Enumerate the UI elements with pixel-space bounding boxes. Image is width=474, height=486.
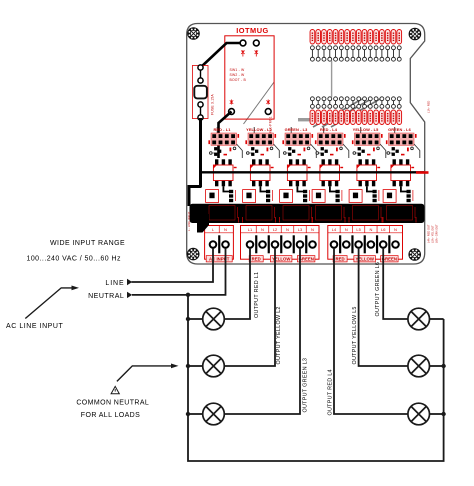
lamp LAMP4 <box>408 308 430 330</box>
wire lamp1 left <box>188 318 203 320</box>
svg-text:OUTPUT YELLOW L5: OUTPUT YELLOW L5 <box>352 306 358 364</box>
svg-text:N: N <box>224 227 227 232</box>
svg-text:YELLOW - L5: YELLOW - L5 <box>353 127 379 132</box>
svg-text:GREEN - L3: GREEN - L3 <box>285 127 309 132</box>
mounting hole top-left <box>187 27 200 40</box>
wire lamp4 to L6 <box>383 248 408 319</box>
wire lamp6 to L4 <box>334 248 408 414</box>
svg-text:L - LINE INPUT: L - LINE INPUT <box>187 211 191 231</box>
module pad 3 <box>229 109 235 115</box>
svg-text:L4A - RED OUT: L4A - RED OUT <box>427 224 431 243</box>
svg-text:RED: RED <box>336 257 345 262</box>
svg-text:WIDE INPUT RANGE: WIDE INPUT RANGE <box>50 240 125 247</box>
svg-text:L2: L2 <box>273 227 278 232</box>
svg-text:RED - L1: RED - L1 <box>213 127 231 132</box>
wire lamp6 right <box>430 413 444 415</box>
lamp LAMP3 <box>203 403 225 425</box>
module text <box>230 68 247 82</box>
wire lamp1 to L1 <box>224 248 250 319</box>
power module U1 HLK-PM01 <box>225 36 274 119</box>
svg-text:SW2 - W: SW2 - W <box>230 73 246 77</box>
thick trace fuse to band <box>189 118 202 206</box>
svg-text:L6: L6 <box>381 227 386 232</box>
mounting hole bottom-right <box>408 248 421 261</box>
module pad 4 <box>265 109 271 115</box>
warning triangle <box>111 386 119 393</box>
module pad 1 <box>240 40 246 46</box>
junction <box>441 412 445 416</box>
thick trace module to channel <box>219 112 232 159</box>
svg-text:BOOT - B: BOOT - B <box>230 78 247 82</box>
lamp LAMP6 <box>408 403 430 425</box>
terminal block outputs L4-L6 <box>328 226 403 260</box>
wire lamp3 left <box>188 413 203 415</box>
svg-text:FUSE 3.15A: FUSE 3.15A <box>211 94 215 115</box>
fuse F1 outline <box>192 66 208 119</box>
channel GREEN - L3 <box>280 127 317 202</box>
channel YELLOW - L2 <box>243 127 280 202</box>
svg-text:NEUTRAL: NEUTRAL <box>88 293 124 300</box>
copper traces across lower header <box>313 99 362 127</box>
svg-text:L5: L5 <box>356 227 361 232</box>
svg-text:OUTPUT GREEN L3: OUTPUT GREEN L3 <box>302 358 308 413</box>
trace from module to fuse <box>201 43 244 68</box>
svg-text:L6A - GRN OUT: L6A - GRN OUT <box>435 224 439 243</box>
mounting hole top-right <box>409 28 422 41</box>
arrow to neutral bus <box>117 366 171 382</box>
junction <box>186 293 190 297</box>
svg-text:N: N <box>286 227 289 232</box>
band wedge <box>197 214 209 233</box>
copper trace (gray bar) <box>298 118 314 121</box>
svg-text:FOR ALL LOADS: FOR ALL LOADS <box>81 412 140 419</box>
fuse pads <box>198 65 203 120</box>
neutral bus wire <box>188 295 444 461</box>
wire NEUTRAL to AC input <box>132 248 226 295</box>
svg-text:N: N <box>261 227 264 232</box>
svg-text:IOTMUG: IOTMUG <box>236 26 269 35</box>
channel GREEN - L6 <box>383 127 420 202</box>
svg-text:RED - L4: RED - L4 <box>320 127 338 132</box>
power plane band <box>190 204 425 223</box>
terminal block AC INPUT <box>205 226 234 260</box>
wire lamp3 to L3 <box>224 248 300 414</box>
svg-text:AC LINE INPUT: AC LINE INPUT <box>6 323 63 330</box>
module pad 2 <box>253 40 259 46</box>
fuse pad links <box>200 70 202 115</box>
svg-text:OUTPUT YELLOW L2: OUTPUT YELLOW L2 <box>276 306 282 364</box>
wire lamp4 right <box>430 318 444 320</box>
fuse body <box>194 86 207 99</box>
PCB board outline <box>187 24 425 265</box>
junction <box>441 364 445 368</box>
channel RED - L4 <box>312 127 349 202</box>
channel YELLOW - L5 <box>349 127 386 202</box>
channel RED - L1 <box>206 127 243 202</box>
thick horizontal trace <box>201 171 425 173</box>
lamp LAMP2 <box>203 355 225 377</box>
terminal block outputs L1-L3 <box>241 226 320 260</box>
svg-text:RED: RED <box>252 257 261 262</box>
svg-text:OUTPUT RED L4: OUTPUT RED L4 <box>327 369 333 415</box>
triac outline on band <box>353 206 379 221</box>
svg-text:L3: L3 <box>298 227 303 232</box>
triac outline on band <box>283 206 309 221</box>
junction <box>186 364 190 368</box>
wire lamp5 to L5 <box>359 248 408 366</box>
svg-text:N: N <box>369 227 372 232</box>
header J1 via pairs <box>310 46 314 61</box>
svg-text:GREEN - L6: GREEN - L6 <box>388 127 412 132</box>
lamp LAMP1 <box>203 308 225 330</box>
svg-text:COMMON NEUTRAL: COMMON NEUTRAL <box>76 400 149 407</box>
lamp LAMP5 <box>408 355 430 377</box>
copper trace (gray) <box>331 61 333 97</box>
triac outline on band <box>387 206 413 221</box>
triac outline on band <box>316 206 342 221</box>
svg-text:OUTPUT RED L1: OUTPUT RED L1 <box>254 272 260 318</box>
svg-text:L5A - YEL OUT: L5A - YEL OUT <box>431 225 435 243</box>
header J2 (lower pin row) <box>310 110 315 125</box>
triac outline on band <box>246 206 272 221</box>
svg-text:100...240 VAC / 50...60 Hz: 100...240 VAC / 50...60 Hz <box>27 255 122 262</box>
junction <box>186 412 190 416</box>
wire lamp2 left <box>188 365 203 367</box>
svg-text:N: N <box>311 227 314 232</box>
junction <box>186 317 190 321</box>
wire LINE to AC input <box>132 248 214 282</box>
red dash over right edge <box>416 171 429 174</box>
header J1 (top pin row) <box>310 30 315 45</box>
svg-text:L1: L1 <box>248 227 253 232</box>
arrow to line/neutral <box>25 288 73 319</box>
svg-text:OUTPUT GREEN L6: OUTPUT GREEN L6 <box>375 262 381 317</box>
header J2 via pairs <box>310 97 314 109</box>
svg-text:N: N <box>394 227 397 232</box>
module silk marks <box>230 50 270 105</box>
wire lamp5 right <box>430 365 444 367</box>
svg-text:L4: L4 <box>332 227 337 232</box>
mounting hole bottom-left <box>187 248 200 261</box>
svg-text:L1A - RED: L1A - RED <box>427 101 431 113</box>
svg-text:YELLOW - L2: YELLOW - L2 <box>246 127 272 132</box>
svg-text:SW1 - W: SW1 - W <box>230 68 246 72</box>
wire lamp2 to L2 <box>224 248 275 366</box>
triac outline on band <box>209 206 235 221</box>
svg-text:N: N <box>345 227 348 232</box>
svg-text:LINE: LINE <box>105 280 124 287</box>
copper trace (gray diagonal) <box>244 82 275 124</box>
